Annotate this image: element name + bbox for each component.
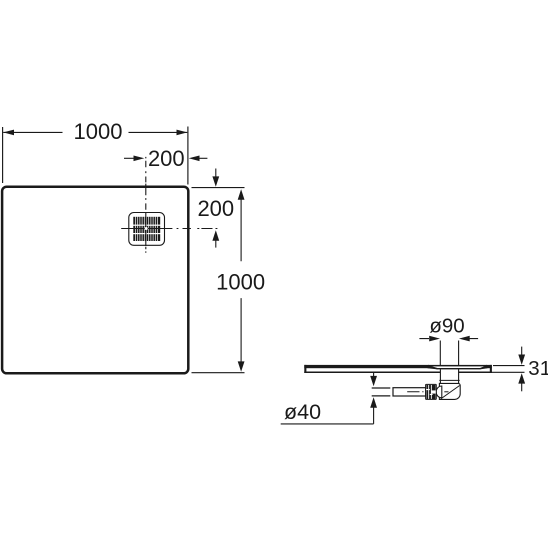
elbow diagonal line	[441, 386, 460, 399]
tray side profile: bottom line	[304, 372, 440, 374]
dimension ø90: line and arrows	[419, 338, 478, 340]
dimension 31: lower arrow up	[521, 383, 523, 392]
drain centerline horizontal (dash-dot)	[121, 228, 217, 230]
dimension 31: upper arrow down	[521, 347, 523, 356]
dimension 200 top: right line+arrow pointing left	[198, 157, 208, 159]
pipe centerline dash-dot	[407, 391, 423, 393]
extension line: bottom edge of tray extended right	[192, 372, 245, 374]
drain grille outline	[129, 213, 165, 246]
tray side profile: main top band left	[304, 365, 429, 368]
tray outline (top view)	[2, 187, 188, 374]
tray bottom line right of waste	[459, 372, 492, 374]
waste neck walls below tray	[440, 369, 458, 383]
extension line right (top dims)	[187, 127, 189, 185]
dimension 1000 top: line	[3, 131, 187, 133]
dimension ø40: lower arrow up	[370, 397, 377, 407]
tray side profile: recess left wedge	[428, 365, 438, 369]
dimension ø40: leader line	[281, 407, 374, 424]
svg-text:200: 200	[148, 146, 185, 171]
dimension ø40: upper arrow down	[373, 373, 375, 377]
tray side profile: top band right of drain	[486, 365, 492, 368]
tray side profile: left end cap	[304, 365, 306, 373]
svg-text:ø90: ø90	[429, 315, 464, 338]
ø90 extension lines down to tray	[440, 341, 458, 367]
tray side profile: recess right wedge	[480, 365, 488, 369]
elbow body	[439, 383, 460, 399]
extension line: top edge of tray extended right	[192, 187, 245, 189]
svg-text:1000: 1000	[74, 119, 123, 144]
drain grille slot gaps (white separators)	[136, 216, 158, 242]
dimension 31: extension lines right	[492, 366, 525, 373]
dimension 1000 top: left arrowhead	[3, 130, 14, 136]
dimension 1000 right: line with arrows	[240, 199, 242, 363]
tray side profile: thin rim line across drain recess	[428, 365, 487, 367]
knurled nut	[426, 384, 437, 399]
elbow centerline dash	[444, 391, 448, 393]
dimension 200 top: left line+arrow pointing right	[124, 157, 135, 159]
extension line left (top dim 1000)	[2, 127, 4, 183]
svg-text:200: 200	[197, 196, 234, 221]
waste flange joint lines	[439, 379, 459, 381]
tray side profile: right end cap	[490, 365, 492, 373]
ball joint arc	[436, 386, 442, 398]
drain grille hatch slots	[133, 217, 160, 241]
tray side profile: recess floor line	[437, 368, 481, 369]
svg-text:31: 31	[528, 357, 548, 380]
svg-text:ø40: ø40	[284, 400, 321, 424]
drain centerline vertical (dash-dot)	[145, 157, 147, 253]
dimension 1000 top: right arrowhead	[177, 130, 188, 136]
drain center point (white)	[145, 227, 148, 230]
svg-text:1000: 1000	[216, 270, 265, 295]
dimension 200 right: upper arrow pointing down	[215, 169, 217, 178]
pipe extension lines (ø40)	[372, 388, 391, 396]
pipe body	[393, 388, 426, 396]
dimension 200 right: lower arrow pointing up	[215, 240, 217, 248]
